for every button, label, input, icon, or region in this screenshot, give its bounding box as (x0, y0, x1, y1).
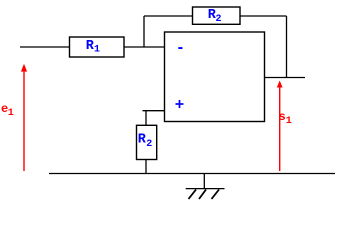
wire ground rail (49, 173, 335, 175)
wire R1 to op-amp inverting input (124, 46, 165, 48)
label s1 (279, 110, 292, 127)
wire stub R2 to ground rail (145, 160, 147, 174)
wire input to R1 (20, 46, 71, 48)
resistor R2 feedback (193, 7, 241, 25)
svg-text:2: 2 (216, 14, 222, 25)
resistor R2 ground leg (137, 125, 157, 159)
wire feedback top left segment (144, 15, 193, 17)
svg-text:s: s (279, 110, 286, 124)
svg-text:1: 1 (8, 108, 14, 119)
svg-text:1: 1 (94, 45, 100, 56)
wire output (265, 77, 306, 79)
op-amp inverting input minus label (178, 47, 182, 49)
wire stub to R2 ground leg (145, 111, 147, 126)
wire feedback vertical from node to top (143, 16, 145, 47)
resistor R1 (70, 37, 125, 57)
ground (186, 174, 225, 200)
wire feedback right vertical to output (286, 16, 288, 78)
svg-text:1: 1 (286, 116, 292, 127)
op-amp U1 (165, 32, 265, 122)
svg-text:2: 2 (146, 139, 152, 150)
voltage arrow e1 (21, 64, 27, 171)
wire non-inverting input horizontal (143, 110, 165, 112)
label e1 (1, 102, 14, 119)
op-amp non-inverting input plus label (176, 100, 184, 108)
wire feedback top right segment (240, 15, 287, 17)
voltage arrow s1 (277, 81, 283, 172)
